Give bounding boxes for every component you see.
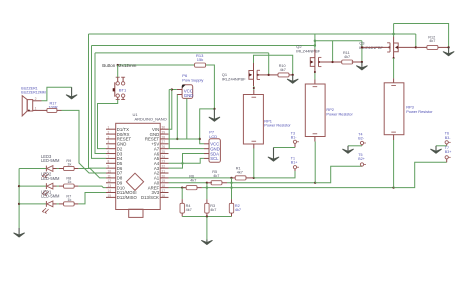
svg-text:12: 12 xyxy=(108,179,112,183)
wire net D3 rail3 horizontal xyxy=(95,52,269,54)
resistor R17 body xyxy=(47,108,57,112)
pin stub U1 left pin 2 xyxy=(106,133,116,135)
wire P6 VCC to VIN pin xyxy=(169,90,177,130)
wire row B to T5 B2+ connector xyxy=(315,166,362,182)
transistor Q3 drain pin xyxy=(393,37,395,44)
svg-text:4k7: 4k7 xyxy=(186,208,192,212)
svg-text:27: 27 xyxy=(162,140,166,144)
pin stub U1 right pin 18 xyxy=(160,187,168,189)
svg-text:4k7: 4k7 xyxy=(213,174,219,178)
junction Q1 gate node xyxy=(268,74,270,76)
pin stub RP3 top xyxy=(393,78,395,83)
divider bottom stubs xyxy=(181,213,183,216)
transistor Q3 MOSFET symbol xyxy=(394,43,399,52)
buzzer pin 1 stub xyxy=(33,109,43,111)
pushbutton BT1 symbol xyxy=(116,82,119,85)
resistor R6 body xyxy=(186,186,197,190)
LED LED3 emission arrows xyxy=(42,173,46,177)
connector T5 B2+ circle xyxy=(360,163,363,166)
junction Q3 gate node xyxy=(361,46,363,48)
resistor R7 body xyxy=(64,202,75,206)
resistor R11 body xyxy=(342,60,353,64)
wire R7 to Arduino pin xyxy=(78,193,106,204)
LED LED2 anode stub xyxy=(53,185,57,187)
wire net D3 rail3 left vertical to pin D3 xyxy=(95,53,106,154)
wire row C to T7 B3+ connector xyxy=(394,162,447,187)
wire T6 to ground xyxy=(436,145,447,147)
wire Q3 top supply rail xyxy=(394,24,449,48)
ground symbol LED rail xyxy=(18,228,20,236)
svg-text:9: 9 xyxy=(108,165,110,169)
pin stub RP2 bottom xyxy=(314,137,316,142)
wire rail3 drop to Q1 gate row xyxy=(268,53,270,75)
wire net AREF row to R4 node xyxy=(169,187,187,189)
power resistor RP1 body xyxy=(243,95,263,145)
resistor R4 vertical body xyxy=(180,203,184,213)
resistor R9 body xyxy=(64,166,75,170)
svg-text:Power Resistor: Power Resistor xyxy=(406,109,433,114)
power resistor RP2 pin marks xyxy=(313,86,318,88)
junction LED2 on rail xyxy=(18,185,20,187)
wire T4 to ground xyxy=(348,145,362,147)
power resistor RP3 pin marks xyxy=(391,85,396,87)
wire R5 right to RP2 drop xyxy=(227,182,315,184)
svg-text:IRLZ44NPBF: IRLZ44NPBF xyxy=(296,49,320,54)
junction node R5-R3-A0 xyxy=(206,182,208,184)
svg-text:16: 16 xyxy=(162,194,166,198)
pin stubs of P6 xyxy=(177,89,182,91)
wire rail2 drop to Q2 gate row xyxy=(332,41,334,62)
svg-text:2: 2 xyxy=(108,130,110,134)
connector T7 B3+ circle xyxy=(445,156,448,159)
transistor Q2 source pin xyxy=(314,66,316,72)
pin stub U1 right pin 19 xyxy=(160,182,168,184)
ground symbol R12 pulldown xyxy=(448,47,450,54)
pin stub T7 xyxy=(446,159,448,162)
svg-text:B3+: B3+ xyxy=(445,150,452,154)
connector T3 B1- circle xyxy=(293,140,296,143)
wire crossing blobs xyxy=(206,187,208,189)
wire P6 VCC branch down to P7 GND row xyxy=(168,90,170,149)
svg-text:Button 12x12mm: Button 12x12mm xyxy=(102,63,136,68)
svg-text:14: 14 xyxy=(108,189,112,193)
pin stub T6 xyxy=(446,144,448,146)
resistor R5 body xyxy=(211,181,222,185)
svg-text:4k7: 4k7 xyxy=(429,39,435,43)
pin stub U1 left pin 11 xyxy=(106,177,116,179)
ground symbol Q1 gate pulldown xyxy=(292,75,294,82)
pin stub U1 left pin 3 xyxy=(106,138,116,140)
pin stub T1 xyxy=(294,169,296,171)
wire net D4 rail2 left vertical to pin D4 xyxy=(92,46,107,159)
pin stub P7 SCL xyxy=(204,157,209,159)
buzzer BUZZER1 speaker symbol xyxy=(22,96,27,116)
transistor Q2 MOSFET symbol xyxy=(310,58,315,67)
pin stub P7 GND xyxy=(204,148,209,150)
power resistor RP2 body xyxy=(305,84,325,137)
LED LED2 symbol xyxy=(45,183,47,189)
resistor R9 stubs xyxy=(59,168,64,170)
connector T1 B1+ circle xyxy=(293,166,296,169)
resistor R7 stubs xyxy=(59,203,64,205)
svg-text:4k7: 4k7 xyxy=(235,208,241,212)
pin stub T5 xyxy=(361,165,363,167)
junction Q2 gate node xyxy=(331,61,333,63)
pin stub P7 VCC xyxy=(204,143,209,145)
connector P6 body xyxy=(182,85,193,99)
resistor R17 stubs xyxy=(43,109,48,111)
svg-text:3: 3 xyxy=(108,135,110,139)
svg-text:7: 7 xyxy=(108,155,110,159)
pin stub RP3 bottom xyxy=(393,135,395,140)
pin stub U1 right pin 27 xyxy=(160,143,168,145)
wire R9 to Arduino pin xyxy=(78,169,106,178)
svg-text:D12/MISO: D12/MISO xyxy=(117,195,138,200)
pin stub U1 left pin 1 xyxy=(106,128,116,130)
svg-text:15k: 15k xyxy=(197,57,203,62)
resistor R12 body xyxy=(427,45,438,49)
junction Q3 drain / rail1 crossing xyxy=(392,33,394,35)
pin stub U1 left pin 5 xyxy=(106,148,116,150)
junction rail1 drop on Q3 gate row xyxy=(415,46,417,48)
svg-text:1: 1 xyxy=(108,126,110,130)
transistor Q3 gate pin left xyxy=(362,46,390,48)
pin stub RP1 top xyxy=(253,90,255,95)
wire buzzer pin2 to ground xyxy=(42,87,72,101)
junction on P6 VCC wire xyxy=(171,88,173,90)
resistor R6 stubs xyxy=(182,187,186,189)
wire LED to resistor R9 xyxy=(57,168,60,170)
pin stub U1 left pin 14 xyxy=(106,192,116,194)
ground symbol below corner node xyxy=(213,109,215,120)
svg-text:B3-: B3- xyxy=(445,136,451,140)
svg-text:18: 18 xyxy=(162,184,166,188)
pin stub U1 left pin 15 xyxy=(106,196,116,198)
resistor R3 top stub and wire xyxy=(206,183,208,199)
svg-text:4: 4 xyxy=(108,140,110,144)
wire divider ground rail xyxy=(182,216,231,218)
transistor Q1 MOSFET symbol xyxy=(249,71,254,80)
svg-text:28: 28 xyxy=(162,135,166,139)
svg-text:4k7: 4k7 xyxy=(280,68,286,72)
svg-text:B2-: B2- xyxy=(358,137,364,141)
wire LED to resistor R7 xyxy=(57,203,60,205)
wire R17 to pin D7 with diagonal xyxy=(62,110,107,173)
transistor Q1 source pin xyxy=(253,79,255,86)
pin stub T3 xyxy=(294,144,296,148)
transistor Q2 gate pin xyxy=(319,61,333,63)
wire P6 GND down to GND row xyxy=(176,95,178,139)
svg-text:25: 25 xyxy=(162,150,166,154)
svg-text:Power Resistor: Power Resistor xyxy=(264,123,291,128)
svg-text:4k7: 4k7 xyxy=(237,171,243,175)
resistor R3 vertical body xyxy=(205,203,209,213)
wire net D4 rail2 horizontal xyxy=(92,45,316,47)
wire net D4 rail2 jog up xyxy=(315,41,362,46)
pin stub U1 left pin 4 xyxy=(106,143,116,145)
resistor R2 top stub and wire xyxy=(231,178,233,199)
svg-text:29: 29 xyxy=(162,130,166,134)
wire net A0 row to R5 xyxy=(169,182,207,184)
LED LED3 anode stub xyxy=(53,168,57,170)
svg-text:1k: 1k xyxy=(67,180,71,184)
junction P7 VCC drop on GND row xyxy=(199,138,201,140)
LED LED1 anode stub xyxy=(53,203,57,205)
svg-text:SCL: SCL xyxy=(210,156,219,161)
svg-text:30: 30 xyxy=(162,126,166,130)
svg-text:26: 26 xyxy=(162,145,166,149)
svg-text:Pow Supply: Pow Supply xyxy=(182,78,203,83)
junction divider ground node xyxy=(206,215,208,217)
transistor Q3 gate wire right to R12 xyxy=(398,46,416,48)
pin stub U1 left pin 13 xyxy=(106,187,116,189)
pin stub U1 right pin 29 xyxy=(160,133,168,135)
wire Q1 drain to ground rail corner xyxy=(254,55,293,75)
wire down to divider ground xyxy=(206,217,208,240)
wire A3 to P7 SDA xyxy=(169,154,205,169)
connector P7 body xyxy=(209,139,220,163)
svg-text:LED-5MM: LED-5MM xyxy=(41,176,60,181)
power resistor RP3 body xyxy=(384,83,404,135)
junction node R4 top xyxy=(181,186,183,188)
svg-text:LCD: LCD xyxy=(209,134,217,139)
IC U1 diamond mark xyxy=(126,173,143,190)
junction LED1 on rail xyxy=(18,203,20,205)
wire button top to R13 row xyxy=(118,64,195,66)
resistor R2 vertical body xyxy=(229,203,233,213)
ground symbol divider xyxy=(206,240,208,244)
svg-text:23: 23 xyxy=(162,160,166,164)
wire net D6 rail1 left vertical to pin D6 xyxy=(89,34,107,168)
pin stub U1 right pin 17 xyxy=(160,192,168,194)
LED LED1 symbol xyxy=(45,201,47,207)
resistor R11 stubs xyxy=(333,61,342,63)
wire A7 row to P7 GND xyxy=(169,148,205,150)
pin stub U1 right pin 30 xyxy=(160,128,168,130)
wire LED to resistor R8 xyxy=(57,185,60,187)
pin stub U1 right pin 22 xyxy=(160,167,168,169)
svg-text:24: 24 xyxy=(162,155,166,159)
wire Q3 drain vertical xyxy=(393,24,395,37)
wire node to T1 B1+ connector xyxy=(254,169,295,178)
svg-text:5: 5 xyxy=(108,145,110,149)
pin stub U1 right pin 24 xyxy=(160,157,168,159)
svg-text:15: 15 xyxy=(108,194,112,198)
resistor R4 top stub and wire xyxy=(181,188,183,200)
svg-text:19: 19 xyxy=(162,179,166,183)
resistor R10 body xyxy=(278,73,289,77)
pin stub U1 left pin 9 xyxy=(106,167,116,169)
svg-text:11: 11 xyxy=(108,174,112,178)
pin stub U1 left pin 10 xyxy=(106,172,116,174)
junction R11 right ground node xyxy=(361,61,363,63)
junction node R1-R2-A1 xyxy=(230,177,232,179)
resistor R5 stubs xyxy=(207,182,212,184)
svg-text:4k7: 4k7 xyxy=(344,55,350,59)
pin stub U1 right pin 25 xyxy=(160,153,168,155)
svg-text:13: 13 xyxy=(108,184,112,188)
wire Q1 source to RP1 xyxy=(253,86,255,90)
LED LED2 emission arrows xyxy=(42,190,46,194)
svg-text:LED-5MM: LED-5MM xyxy=(41,158,60,163)
wire R8 to Arduino pin xyxy=(78,186,106,188)
IC U1 ARDUINO_NANO body xyxy=(116,123,161,209)
wire rail to LED2 cathode xyxy=(19,185,46,187)
LED LED3 symbol xyxy=(45,166,47,172)
wire RP3 bottom to row C xyxy=(393,140,395,188)
IC U1 value plate below xyxy=(129,209,143,217)
junction button top node xyxy=(117,64,119,66)
wire R6 right long to RP3 bottom xyxy=(202,187,394,189)
junction R12 right ground node xyxy=(447,46,449,48)
svg-text:4k7: 4k7 xyxy=(210,208,216,212)
transistor Q1 gate pin xyxy=(257,74,269,76)
resistor R10 stubs xyxy=(269,74,278,76)
ground symbol B2- xyxy=(347,146,349,152)
wire A4 to P7 SCL xyxy=(169,158,205,163)
ground symbol Q2 gate pulldown xyxy=(361,62,363,69)
wire corner to P7 VCC drop xyxy=(200,109,215,144)
svg-text:B2+: B2+ xyxy=(358,157,365,161)
pin stub U1 right pin 20 xyxy=(160,177,168,179)
pin stub T4 xyxy=(361,145,363,146)
pin stub U1 right pin 23 xyxy=(160,162,168,164)
pin stub U1 right pin 16 xyxy=(160,196,168,198)
ground symbol buzzer xyxy=(71,87,73,98)
pin stub RP1 bottom xyxy=(253,144,255,149)
svg-text:20: 20 xyxy=(162,174,166,178)
wire from P6 area down to GND row xyxy=(186,98,188,139)
wire RP1 bottom to row A xyxy=(253,149,255,178)
svg-text:D13/SCK: D13/SCK xyxy=(141,195,159,200)
ground symbol B3- xyxy=(435,146,437,152)
ground symbol B1- xyxy=(273,148,275,161)
svg-text:LED-5MM: LED-5MM xyxy=(41,194,60,199)
svg-text:17: 17 xyxy=(162,189,166,193)
wire R13 right to corner xyxy=(205,65,214,109)
pin stub U1 left pin 7 xyxy=(106,157,116,159)
resistor R1 stubs xyxy=(232,177,236,179)
junction RP2 bottom on row B xyxy=(314,182,316,184)
wire RP2 bottom to row B xyxy=(314,142,316,183)
junction node RP1 bottom / B1+ xyxy=(253,177,255,179)
wire rail to LED1 cathode xyxy=(19,203,46,205)
resistor R13 body xyxy=(195,63,206,67)
pin stub U1 left pin 12 xyxy=(106,182,116,184)
wire net D4 rail2 drop through Q3 gate to R11 ground xyxy=(361,41,363,62)
pin stub RP2 top xyxy=(314,80,316,85)
LED LED1 emission arrows xyxy=(42,208,46,212)
transistor Q1 drain pin xyxy=(253,63,255,71)
svg-text:22: 22 xyxy=(162,165,166,169)
junction rail2 jog / Q2 drain crossing xyxy=(314,40,316,42)
svg-text:BUZZER12MM: BUZZER12MM xyxy=(21,91,45,95)
pin stub U1 left pin 6 xyxy=(106,153,116,155)
resistor R1 body xyxy=(235,176,246,180)
svg-text:BT1: BT1 xyxy=(119,87,127,92)
svg-text:8: 8 xyxy=(108,160,110,164)
connector T4 B2- circle xyxy=(360,141,363,144)
svg-text:B1+: B1+ xyxy=(291,161,298,165)
svg-text:IRLZ44NPBF: IRLZ44NPBF xyxy=(222,76,246,81)
svg-text:21: 21 xyxy=(162,169,166,173)
resistor R12 stubs xyxy=(416,46,427,48)
junction R10 right ground node xyxy=(292,74,294,76)
wire T3 to ground xyxy=(274,147,296,149)
junction P6 GND on row xyxy=(176,138,178,140)
wire net A1 row to R1/R2 node xyxy=(169,177,232,179)
svg-text:6: 6 xyxy=(108,150,110,154)
resistor R8 body xyxy=(64,184,75,188)
wire button top pin up to node xyxy=(117,65,119,77)
svg-text:Power Resistor: Power Resistor xyxy=(326,111,353,116)
svg-text:1k: 1k xyxy=(67,163,71,167)
svg-text:1k: 1k xyxy=(67,198,71,202)
wire LED ground rail vertical xyxy=(18,169,20,229)
junction RP3 bottom on row C xyxy=(392,186,394,188)
wire button bottom pin to D2 xyxy=(98,100,118,149)
svg-text:ARDUINO_NANO: ARDUINO_NANO xyxy=(135,117,167,122)
wire Q3 source to RP3 xyxy=(393,52,395,58)
wire Q2 source to RP2 xyxy=(314,72,316,80)
svg-text:4k7: 4k7 xyxy=(190,178,196,182)
wire Q2 drain drop from rail1 xyxy=(314,34,316,49)
buzzer pin 2 stub xyxy=(33,100,42,102)
power resistor RP1 pin marks xyxy=(252,96,257,98)
transistor Q2 drain pin xyxy=(314,49,316,58)
svg-text:10: 10 xyxy=(108,169,112,173)
pin stub U1 right pin 28 xyxy=(160,138,168,140)
junction node at P6/ground corner xyxy=(213,108,215,110)
pin stub U1 left pin 8 xyxy=(106,162,116,164)
resistor R8 stubs xyxy=(59,185,64,187)
connector T6 B3- circle xyxy=(445,141,448,144)
svg-text:B1-: B1- xyxy=(291,136,297,140)
pin stub U1 right pin 21 xyxy=(160,172,168,174)
wire rail1 drop to Q3 gate row xyxy=(415,34,417,47)
pin stub U1 right pin 26 xyxy=(160,148,168,150)
svg-text:GND: GND xyxy=(184,93,194,98)
wire net D6 rail1 horizontal xyxy=(89,33,416,35)
wire rail to LED3 cathode xyxy=(19,168,46,170)
wire GND row from RESET pin xyxy=(169,138,200,140)
pin stub P7 SDA xyxy=(204,153,209,155)
svg-text:1: 1 xyxy=(35,106,37,110)
